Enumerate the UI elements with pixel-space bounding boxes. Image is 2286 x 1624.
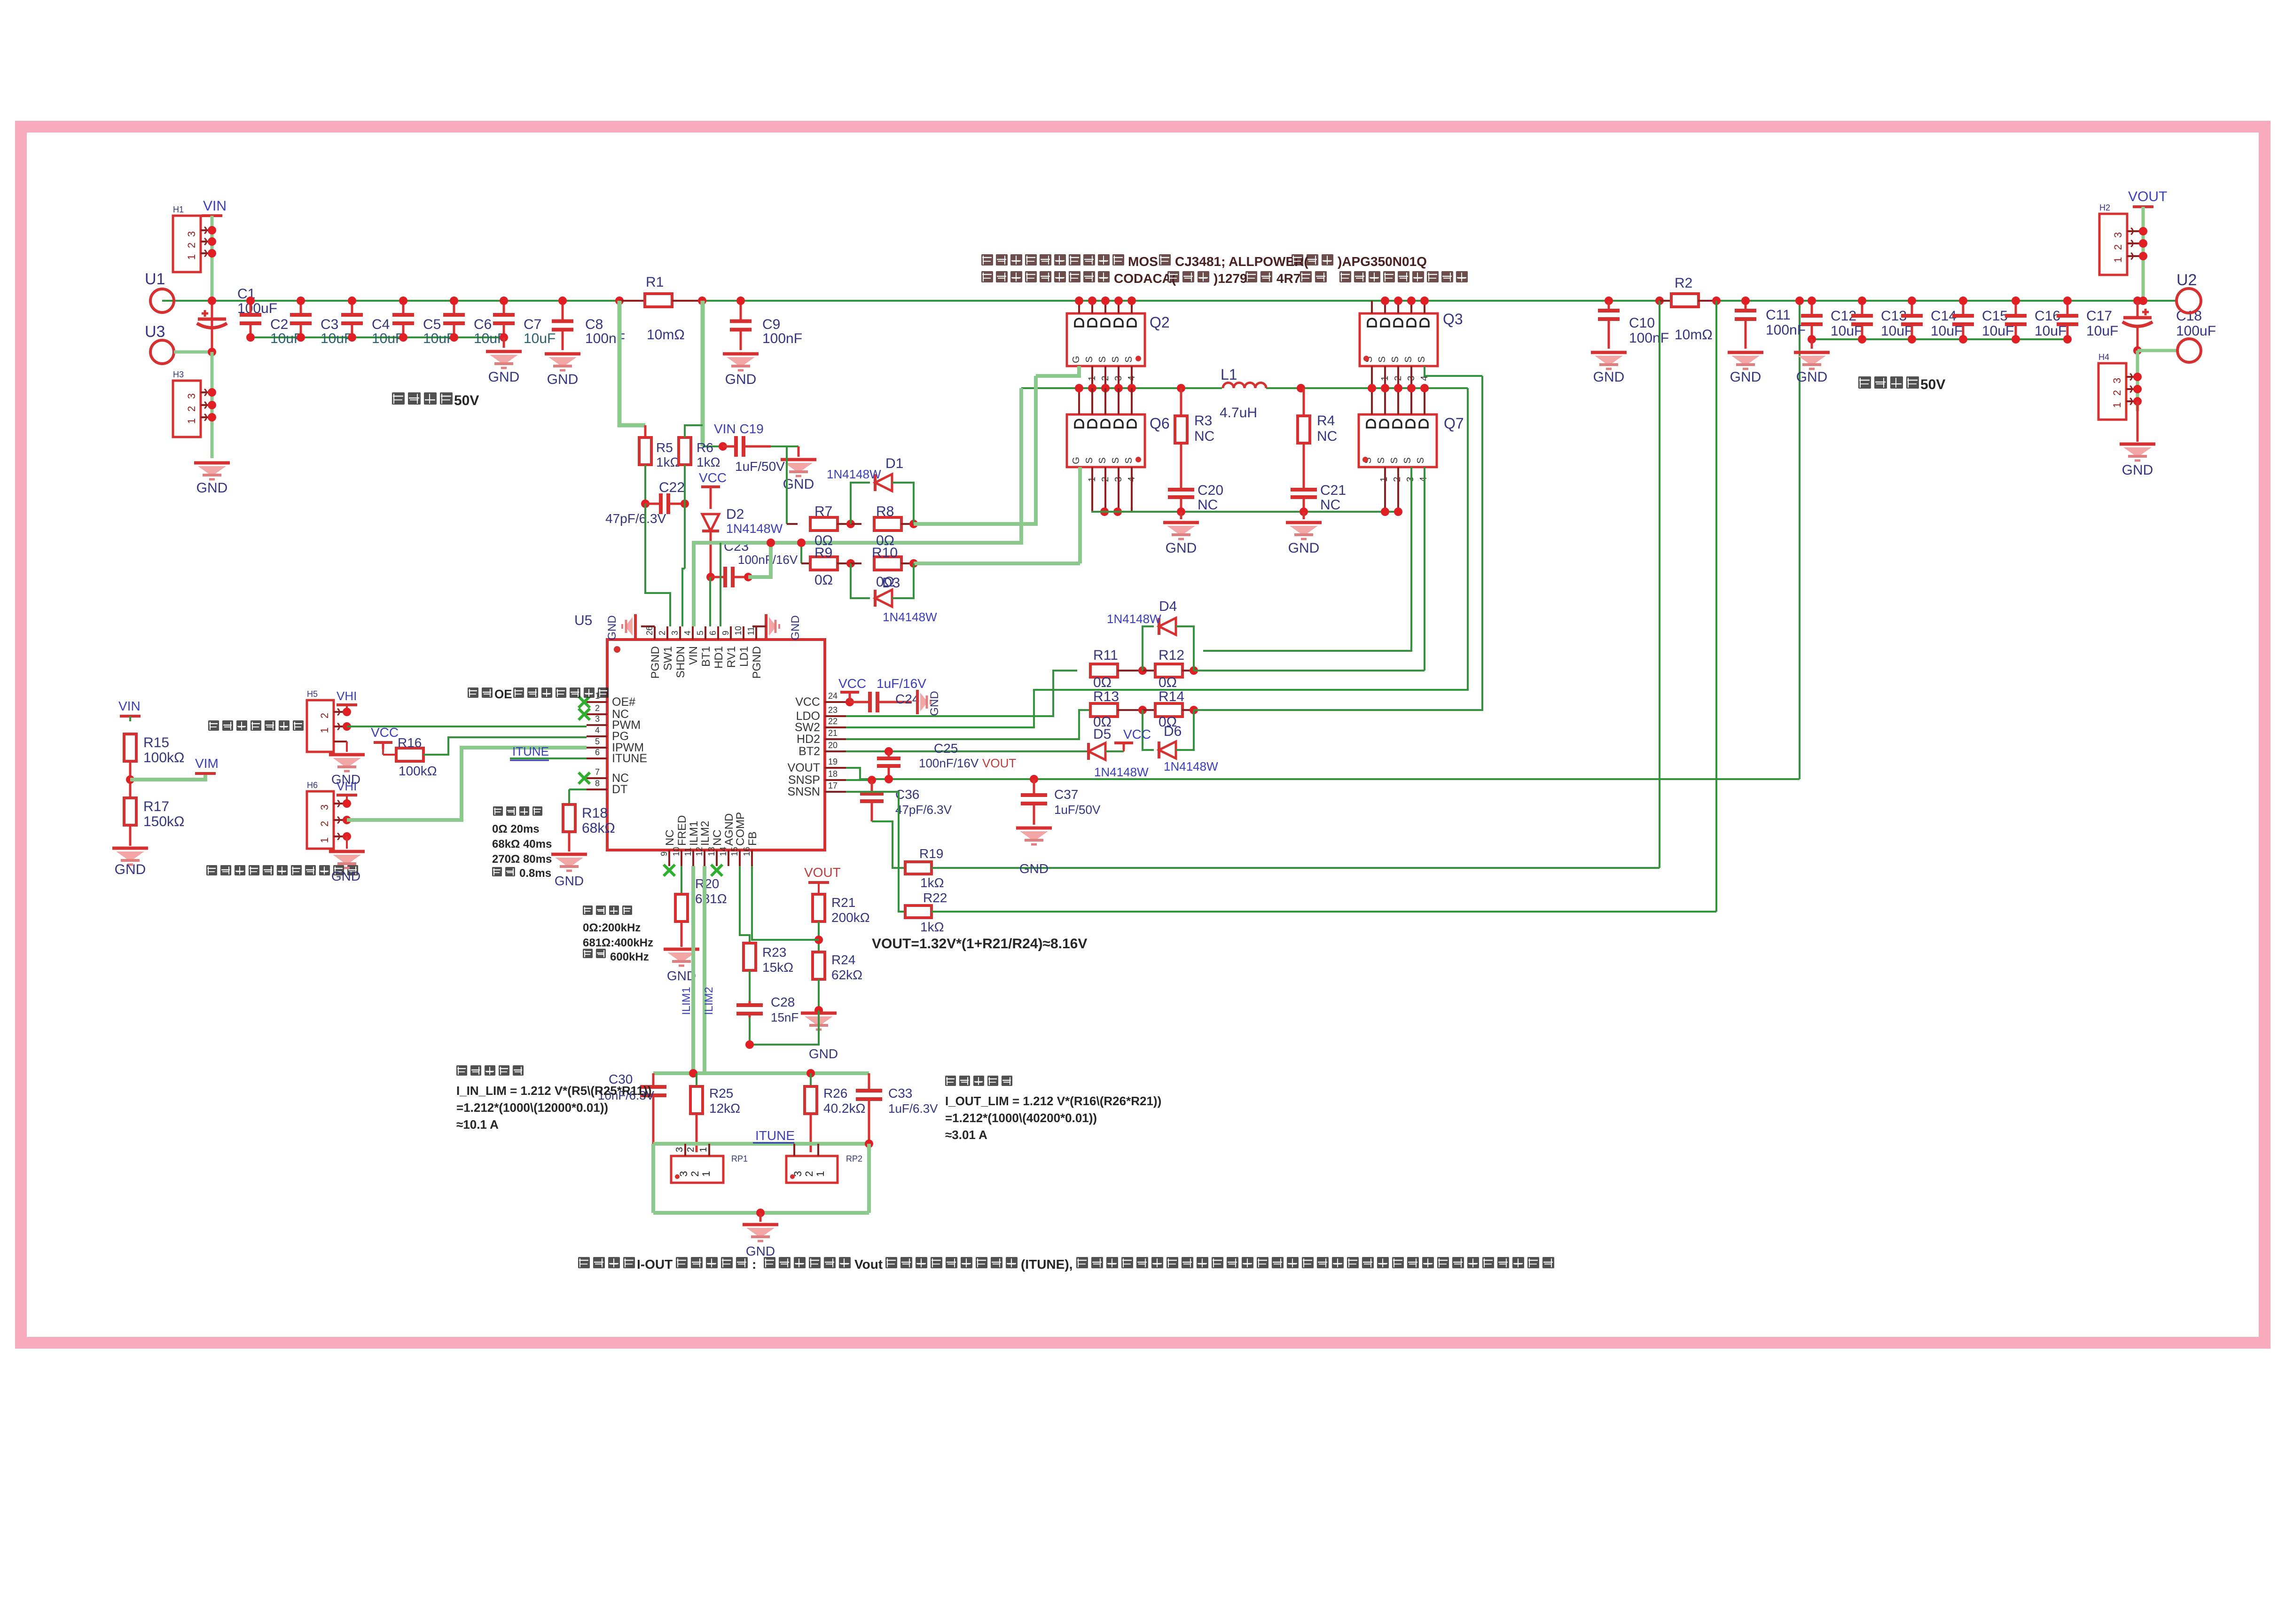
svg-text:R10: R10 xyxy=(872,545,898,561)
wire trimmer right xyxy=(867,1144,871,1213)
svg-text:GND: GND xyxy=(331,869,360,883)
svg-text:C9: C9 xyxy=(762,317,780,332)
wires Q6 bottom pins xyxy=(1092,467,1132,512)
ground C20 xyxy=(1163,512,1199,556)
junction R2 right xyxy=(1712,297,1721,305)
note input limit xyxy=(456,1065,651,1132)
transistor Q2 xyxy=(1067,313,1170,381)
svg-text:D3: D3 xyxy=(882,575,900,591)
svg-text:R14: R14 xyxy=(1159,689,1184,704)
svg-text:1N4148W: 1N4148W xyxy=(726,522,783,536)
svg-text:4R7: 4R7 xyxy=(1276,271,1300,286)
resistor R16 xyxy=(396,735,437,778)
svg-text:1uF/50V: 1uF/50V xyxy=(1054,803,1101,817)
node VOUT R21 xyxy=(804,865,841,894)
svg-text:S: S xyxy=(1389,457,1400,463)
svg-text:1: 1 xyxy=(814,1171,826,1177)
junction R13-R14 xyxy=(1138,706,1147,714)
wire SW2 line xyxy=(846,388,1468,727)
svg-text:)1279: )1279 xyxy=(1213,271,1247,286)
junction BT2 C25 xyxy=(885,747,893,756)
resistor R6 xyxy=(679,437,720,469)
svg-text:9: 9 xyxy=(721,631,730,635)
svg-text:68kΩ 40ms: 68kΩ 40ms xyxy=(492,838,552,851)
ground C37 xyxy=(1016,828,1052,876)
svg-text:16: 16 xyxy=(742,847,752,856)
diode D2 xyxy=(702,507,783,536)
svg-text:1kΩ: 1kΩ xyxy=(920,875,944,890)
svg-text:S: S xyxy=(1377,356,1387,362)
IC U5 body xyxy=(574,613,825,850)
svg-text:C22: C22 xyxy=(659,480,685,495)
svg-text:R11: R11 xyxy=(1093,648,1118,663)
capacitor C19 xyxy=(723,436,785,474)
svg-text:1N4148W: 1N4148W xyxy=(1094,765,1149,779)
capacitor C12 xyxy=(1801,297,1863,344)
capacitor C2 xyxy=(240,297,302,346)
ground C7 xyxy=(486,337,522,385)
connector P2 xyxy=(307,781,347,849)
svg-text:3: 3 xyxy=(186,393,197,399)
svg-text:C11: C11 xyxy=(1766,307,1791,323)
junction FB node xyxy=(814,936,823,944)
wire BT2 xyxy=(846,750,1088,752)
capacitor C16 xyxy=(2005,297,2067,344)
wire R8 to HD1 xyxy=(914,376,1036,524)
svg-text:R8: R8 xyxy=(876,504,894,519)
svg-text:GND: GND xyxy=(1019,861,1049,876)
wire R26 wiper xyxy=(810,1113,812,1152)
note DT options xyxy=(492,806,552,880)
svg-text:21: 21 xyxy=(828,728,838,738)
svg-text:11: 11 xyxy=(746,626,756,635)
wires Q7 top pins xyxy=(1368,384,1429,414)
wire VIN drop xyxy=(211,216,214,352)
svg-text:Q6: Q6 xyxy=(1150,415,1170,432)
node ITUNE label xyxy=(753,1128,795,1143)
svg-text:1uF/16V: 1uF/16V xyxy=(877,676,926,691)
transistor Q3 xyxy=(1360,311,1463,381)
svg-text:S: S xyxy=(1390,356,1401,362)
resistor R8 xyxy=(851,504,914,548)
svg-text:U5: U5 xyxy=(574,613,592,628)
resistor R13 xyxy=(1090,689,1143,730)
capacitor C24 xyxy=(850,676,926,712)
svg-text:GND: GND xyxy=(809,1046,838,1061)
svg-text:VOUT: VOUT xyxy=(2128,189,2167,204)
svg-text:GND: GND xyxy=(196,480,228,496)
wire ITUNE rail xyxy=(653,1140,873,1148)
svg-text:13: 13 xyxy=(707,847,716,856)
svg-text:Q2: Q2 xyxy=(1150,314,1170,331)
svg-text:S: S xyxy=(1097,457,1108,463)
svg-text:VHI: VHI xyxy=(337,779,357,793)
capacitor C22 xyxy=(605,480,685,526)
wire FB xyxy=(752,866,819,940)
transistor Q7 xyxy=(1359,414,1464,482)
svg-text:C7: C7 xyxy=(524,317,541,332)
svg-text:C25: C25 xyxy=(934,741,958,756)
capacitor C15 xyxy=(1952,297,2014,344)
wire LDO to R11 xyxy=(846,671,1077,716)
wire R5 to IC xyxy=(645,504,670,626)
resistor R15 xyxy=(124,716,184,765)
svg-text:2: 2 xyxy=(319,821,330,827)
svg-text:L1: L1 xyxy=(1221,366,1237,383)
svg-text:LD1: LD1 xyxy=(738,646,751,667)
svg-text:10: 10 xyxy=(672,847,681,856)
svg-text:VIN C19: VIN C19 xyxy=(714,422,764,436)
resistor R3 xyxy=(1175,388,1214,486)
wire VOUT sense riser xyxy=(1799,301,1801,779)
svg-text:ILIM2: ILIM2 xyxy=(703,987,715,1015)
capacitor C4 xyxy=(341,297,404,346)
ground left input xyxy=(194,463,230,496)
junction R11-R12 xyxy=(1138,666,1147,675)
svg-text:Vout: Vout xyxy=(854,1257,883,1272)
svg-text:1: 1 xyxy=(698,1147,709,1152)
svg-text:GND: GND xyxy=(1796,369,1828,385)
svg-text:0Ω:200kHz: 0Ω:200kHz xyxy=(583,921,641,934)
svg-text:681Ω: 681Ω xyxy=(695,891,727,906)
capacitor C37 xyxy=(1021,779,1101,825)
svg-text:DT: DT xyxy=(612,783,627,796)
junction C37 xyxy=(1030,775,1038,783)
junction C19 xyxy=(719,442,727,451)
connector J4 VOUT xyxy=(2099,203,2143,275)
resistor R14 xyxy=(1143,689,1194,730)
svg-text:VHI: VHI xyxy=(337,689,357,703)
svg-text:S: S xyxy=(1417,356,1427,362)
wires Q2 bottom pins xyxy=(1092,366,1132,388)
wire R21-R24 xyxy=(818,921,820,952)
svg-text:R15: R15 xyxy=(143,735,169,750)
ground C9 xyxy=(723,354,759,387)
svg-text:ILM1: ILM1 xyxy=(688,821,700,846)
svg-text:ILIM1: ILIM1 xyxy=(680,987,693,1015)
svg-text:VCC: VCC xyxy=(795,695,820,709)
svg-text:62kΩ: 62kΩ xyxy=(831,968,862,982)
svg-text:10: 10 xyxy=(734,626,743,635)
svg-text:I_IN_LIM = 1.212 V*(R5\(R25*R1: I_IN_LIM = 1.212 V*(R5\(R25*R11)) xyxy=(456,1084,651,1098)
svg-text:GND: GND xyxy=(1166,540,1197,556)
diode D1 xyxy=(827,456,914,524)
svg-text:C8: C8 xyxy=(585,317,603,332)
svg-text:FRED: FRED xyxy=(676,815,689,846)
svg-text:S: S xyxy=(1111,356,1121,362)
wire trimmer bottom rail xyxy=(653,1211,869,1215)
connector J2 GND xyxy=(173,370,212,437)
wire output rail xyxy=(1812,338,2067,340)
svg-text:ITUNE: ITUNE xyxy=(755,1128,795,1143)
svg-text:C3: C3 xyxy=(321,317,338,332)
capacitor C10 xyxy=(1598,301,1669,346)
junction P2 xyxy=(343,799,351,841)
wire ILIM rail xyxy=(653,1071,869,1075)
wire DT xyxy=(569,789,587,790)
svg-text:7: 7 xyxy=(595,767,600,777)
node VHI upper xyxy=(337,689,357,712)
wire R15 bottom xyxy=(129,760,132,799)
ground IC top-right xyxy=(752,614,802,640)
wire R24 bottom xyxy=(814,979,823,1015)
junction R12 right xyxy=(1190,666,1198,675)
resistor R22 xyxy=(905,890,947,934)
svg-text:10uF: 10uF xyxy=(372,331,404,346)
svg-text:2: 2 xyxy=(2111,390,2123,396)
junction R10 right xyxy=(909,559,918,568)
svg-text:47pF/6.3V: 47pF/6.3V xyxy=(605,511,666,526)
wire Q7 pin riser1 xyxy=(1203,467,1411,651)
resistor R21 xyxy=(813,894,870,925)
svg-text:R1: R1 xyxy=(646,274,664,290)
junction VOUT C25 xyxy=(885,775,893,783)
svg-text:10uF: 10uF xyxy=(321,331,352,346)
svg-text:100nF: 100nF xyxy=(1629,330,1669,346)
svg-text:H6: H6 xyxy=(307,781,318,790)
svg-text:CODACA(: CODACA( xyxy=(1114,271,1176,286)
svg-text:S: S xyxy=(1084,457,1095,463)
node VIN label xyxy=(202,198,227,216)
svg-text:1: 1 xyxy=(319,837,330,843)
svg-text::: : xyxy=(752,1257,756,1272)
svg-text:GND: GND xyxy=(606,615,618,640)
note voltage rating right xyxy=(1858,376,1945,392)
capacitor C1 xyxy=(197,286,277,352)
svg-text:15nF: 15nF xyxy=(771,1010,799,1024)
junction 1155 xyxy=(767,539,775,547)
capacitor C7 xyxy=(493,297,556,346)
svg-text:100uF: 100uF xyxy=(2176,323,2216,339)
resistor R26 xyxy=(805,1073,865,1116)
junction VOUT riser xyxy=(1795,297,1804,305)
svg-text:VOUT=1.32V*(1+R21/R24)≈8.16V: VOUT=1.32V*(1+R21/R24)≈8.16V xyxy=(872,936,1087,952)
transistor Q6 xyxy=(1067,414,1170,482)
wire SNSN xyxy=(846,792,905,912)
svg-text:C21: C21 xyxy=(1320,483,1346,498)
capacitor C23 xyxy=(711,539,798,587)
svg-text:R6: R6 xyxy=(697,440,713,455)
note MOS annotation line2 xyxy=(981,271,1468,286)
svg-text:4: 4 xyxy=(683,631,692,635)
ground P1 xyxy=(329,742,365,787)
svg-text:GND: GND xyxy=(928,691,941,716)
junction C21 rail xyxy=(1300,507,1308,516)
svg-text:SHDN: SHDN xyxy=(674,646,687,678)
svg-text:NC: NC xyxy=(1194,429,1214,444)
svg-text:4.7uH: 4.7uH xyxy=(1220,405,1257,421)
svg-text:MOS: MOS xyxy=(1128,254,1158,269)
wire GND drop xyxy=(211,352,214,458)
svg-text:R2: R2 xyxy=(1675,275,1692,291)
junction dots J1 xyxy=(208,226,216,258)
svg-text:C6: C6 xyxy=(474,317,492,332)
capacitor C8 xyxy=(552,297,625,350)
svg-text:D1: D1 xyxy=(885,456,903,471)
wire VIN bus xyxy=(162,300,2177,302)
wire R12 to Q7 gate xyxy=(1194,670,1425,671)
svg-text:D6: D6 xyxy=(1164,724,1182,739)
resistor R23 xyxy=(744,943,793,975)
wire ILIM1 xyxy=(680,866,693,1073)
resistor R18 xyxy=(563,789,615,836)
svg-text:H1: H1 xyxy=(173,205,184,214)
wire R25 wiper xyxy=(696,1113,698,1152)
resistor R24 xyxy=(813,952,862,982)
svg-text:S: S xyxy=(1402,457,1413,463)
junction VOUT bus xyxy=(2139,297,2147,305)
svg-text:4: 4 xyxy=(595,726,600,735)
svg-text:G: G xyxy=(1071,457,1081,464)
svg-text:3: 3 xyxy=(674,1147,685,1152)
svg-text:GND: GND xyxy=(547,372,579,387)
svg-text:C4: C4 xyxy=(372,317,390,332)
svg-text:VCC: VCC xyxy=(371,725,399,740)
resistor R4 xyxy=(1298,388,1337,486)
svg-text:6: 6 xyxy=(708,631,718,635)
junction dots J4 xyxy=(2139,227,2147,260)
svg-text:VIM: VIM xyxy=(195,756,219,771)
svg-text:2: 2 xyxy=(186,242,197,248)
svg-text:S: S xyxy=(1403,356,1414,362)
wire lower rail xyxy=(1091,511,1398,513)
wire VIN to R6/C19 xyxy=(703,301,723,446)
wire trimmer left xyxy=(651,1144,655,1213)
ground C11 xyxy=(1728,329,1763,385)
node VCC pin xyxy=(838,676,866,706)
svg-text:R9: R9 xyxy=(814,545,832,561)
ground R24 xyxy=(801,1013,838,1061)
node VIN divider top xyxy=(118,699,141,716)
svg-text:≈3.01 A: ≈3.01 A xyxy=(945,1128,987,1142)
wire R9 left xyxy=(797,539,806,563)
svg-text:100kΩ: 100kΩ xyxy=(143,750,184,765)
wire R14 to Q3 gate xyxy=(1194,376,1482,710)
ground C24 xyxy=(917,690,941,716)
svg-text:COMP: COMP xyxy=(734,812,747,846)
capacitor C5 xyxy=(392,297,455,346)
svg-text:VOUT: VOUT xyxy=(804,865,841,880)
svg-text:C37: C37 xyxy=(1054,787,1078,802)
svg-text:BT1: BT1 xyxy=(700,646,712,667)
svg-text:BT2: BT2 xyxy=(799,745,820,758)
wire FRED xyxy=(681,866,682,894)
svg-text:R17: R17 xyxy=(143,799,169,814)
note switching freq xyxy=(583,906,653,963)
svg-text:0Ω: 0Ω xyxy=(1159,675,1177,690)
svg-text:681Ω:400kHz: 681Ω:400kHz xyxy=(583,937,653,949)
junction dots J2 xyxy=(208,388,216,422)
svg-text:R3: R3 xyxy=(1194,413,1212,429)
wire SW rail xyxy=(1021,387,1468,389)
svg-text:NC: NC xyxy=(1320,497,1340,513)
svg-text:15: 15 xyxy=(730,847,739,856)
resistor R2 xyxy=(1660,275,1716,343)
svg-text:2: 2 xyxy=(2112,244,2124,250)
resistor R19 xyxy=(905,846,944,890)
svg-text:)APG350N01Q: )APG350N01Q xyxy=(1338,254,1427,269)
svg-text:19: 19 xyxy=(828,757,838,766)
wire PG xyxy=(423,737,587,755)
svg-text:0Ω 20ms: 0Ω 20ms xyxy=(492,823,540,835)
svg-text:H2: H2 xyxy=(2099,203,2110,212)
junction P1 xyxy=(343,708,351,731)
junction R1 left xyxy=(615,297,624,305)
svg-text:VIN: VIN xyxy=(203,198,227,214)
svg-text:C15: C15 xyxy=(1982,308,2008,324)
wire Q2 gate xyxy=(1036,366,1079,376)
svg-text:26: 26 xyxy=(645,626,654,635)
svg-text:VIN: VIN xyxy=(687,646,700,665)
node VIN C19 label xyxy=(714,422,764,436)
svg-text:R5: R5 xyxy=(656,440,673,455)
svg-text:2: 2 xyxy=(186,406,197,412)
ground C21 xyxy=(1286,512,1322,556)
svg-text:Q3: Q3 xyxy=(1443,311,1463,328)
svg-text:SW2: SW2 xyxy=(795,721,820,734)
svg-text:CJ3481; ALLPOWER(: CJ3481; ALLPOWER( xyxy=(1175,254,1308,269)
wire IC top pin w5 xyxy=(720,543,721,626)
svg-text:2: 2 xyxy=(319,713,330,718)
svg-text:600kHz: 600kHz xyxy=(610,951,649,963)
svg-text:100nF: 100nF xyxy=(1766,322,1806,338)
svg-text:270Ω 80ms: 270Ω 80ms xyxy=(492,853,552,866)
svg-text:9: 9 xyxy=(659,851,669,856)
svg-text:0Ω: 0Ω xyxy=(1093,675,1112,690)
junction C20 rail xyxy=(1177,507,1185,516)
wire BT1 drop xyxy=(709,577,711,626)
svg-text:SNSP: SNSP xyxy=(788,773,820,787)
svg-text:R20: R20 xyxy=(695,876,719,891)
note CE level xyxy=(468,687,609,701)
svg-text:10uF: 10uF xyxy=(524,331,556,346)
inductor L1 xyxy=(1220,366,1266,421)
svg-text:VCC: VCC xyxy=(1123,727,1151,742)
node VHI lower xyxy=(337,779,357,804)
junction U3 xyxy=(208,348,216,356)
svg-text:SW1: SW1 xyxy=(662,646,674,671)
note bottom setting xyxy=(578,1257,1554,1272)
svg-text:18: 18 xyxy=(828,769,838,779)
wire C36 to R19 xyxy=(872,821,905,868)
wire SNSP xyxy=(846,776,876,784)
svg-text:R22: R22 xyxy=(923,890,947,905)
wire R19 east xyxy=(932,867,1660,869)
capacitor C17 xyxy=(2057,297,2118,344)
svg-text:OE: OE xyxy=(494,687,512,701)
svg-text:HD1: HD1 xyxy=(712,646,725,669)
ground C8 xyxy=(545,354,580,387)
wire R6 bottom xyxy=(682,465,685,626)
wire VIN to R5 xyxy=(619,301,645,437)
ground R18 xyxy=(551,832,587,888)
svg-text:G: G xyxy=(1071,356,1081,363)
ground C19 xyxy=(771,446,816,492)
wire Q3 gate xyxy=(1425,366,1482,376)
svg-text:100nF/16V: 100nF/16V xyxy=(919,756,979,770)
svg-text:D2: D2 xyxy=(726,507,744,522)
capacitor C14 xyxy=(1901,297,1963,344)
svg-text:GND: GND xyxy=(789,615,802,640)
svg-text:OE#: OE# xyxy=(612,695,635,709)
ground R20 xyxy=(664,921,699,983)
wires Q3 top pins xyxy=(1372,297,1429,313)
svg-text:10uF: 10uF xyxy=(2086,323,2118,339)
svg-text:22: 22 xyxy=(828,717,838,726)
svg-text:100nF/16V: 100nF/16V xyxy=(738,553,798,567)
svg-text:S: S xyxy=(1111,457,1121,463)
svg-text:1: 1 xyxy=(700,1171,712,1177)
